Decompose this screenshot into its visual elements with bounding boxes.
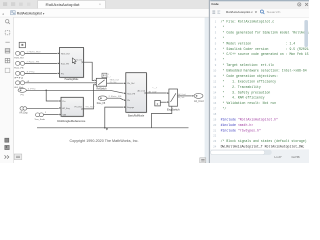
svg-text:* Embedded hardware selection:: * Embedded hardware selection: Intel->x8… [221,69,309,73]
canvas area [14,18,208,164]
horizontal scrollbar [210,150,272,155]
wire rar out [83,85,94,109]
svg-text:* 2. Traceability: * 2. Traceability [221,85,261,89]
svg-text:Rate_FB: Rate_FB [127,92,136,95]
svg-text:#include <math.h>: #include <math.h> [221,123,254,127]
svg-text:HDG_Ref: HDG_Ref [14,57,24,59]
wire mid oval to BasicRollMode p3 [107,98,124,100]
svg-text:◂: ◂ [2,12,4,16]
svg-text:Rate_FB: Rate_FB [61,63,70,66]
svg-text:* Simulink Coder version: * Simulink Coder version : 9.5 (R2021a) … [221,47,309,51]
wire rail to BasicRollMode Engage [105,107,124,128]
wire turn_knob to RollAngleReference p3 [44,114,59,116]
left palette column [0,17,14,163]
wire engswitch out [178,95,192,97]
wire ap_eng to RollAngleReference p2 [27,107,59,109]
mouse cursor [72,58,76,64]
svg-text:*: * [221,36,225,40]
svg-text:×: × [99,2,101,6]
svg-text:RollAxisAutopilot: RollAxisAutopilot [17,11,42,15]
svg-text:Code: Code [211,2,219,6]
palette tool icons [5,20,10,73]
svg-text:HeadingMode: HeadingMode [65,78,79,81]
inport Turn_Knob [36,113,40,117]
svg-text:RollAngleReference: RollAngleReference [57,119,85,123]
svg-text:*: * [221,58,225,62]
svg-text:‹HDG_Out›: ‹HDG_Out› [110,78,120,81]
svg-text:Ail_Cmd: Ail_Cmd [137,90,145,93]
search magnifier [260,10,263,13]
wire Phi to HeadingMode p3 [25,72,58,74]
top tab strip [0,0,210,9]
svg-text:EngSwitch: EngSwitch [167,107,180,111]
junction on rail with down arrow [104,127,106,129]
code vertical scrollbar thumb [304,20,308,47]
svg-text:Phi_Ref: Phi_Ref [127,83,135,85]
svg-text:‹Ail_Cmd›: ‹Ail_Cmd› [178,96,185,99]
svg-text:AP_Eng: AP_Eng [62,107,69,110]
svg-text:‹Ail_Cmd›: ‹Ail_Cmd› [178,93,186,96]
inport HDG_Ref [16,51,20,55]
inport Phi [16,71,20,75]
svg-text:Ail_Cmd: Ail_Cmd [194,99,204,103]
svg-text:‹...›: ‹...› [108,76,111,78]
inport AP_Eng [20,107,24,110]
svg-text:Phi: Phi [14,77,25,79]
svg-text:/* Block signals and states (d: /* Block signals and states (default sto… [221,139,309,143]
svg-text:‹TK_Ref›: ‹TK_Ref› [85,106,95,108]
code toolbar row [210,9,309,18]
svg-text:Rate_FB: Rate_FB [97,102,106,105]
inport row5 Phi [18,88,26,92]
page background [0,0,309,163]
panel divider [209,0,210,163]
inport Rate_FB [16,61,20,65]
svg-text:#include "rtwtypes.h": #include "rtwtypes.h" [221,128,261,132]
svg-text:* Target selection: ert.tlc: * Target selection: ert.tlc [221,63,275,67]
wire HDG_Mode to RefSwitch control [25,82,94,84]
svg-text:* 3. Safety precaution: * 3. Safety precaution [221,90,271,94]
svg-text:* 1. Execution efficiency: * 1. Execution efficiency [221,79,277,83]
palette bottom icons [5,138,10,158]
svg-text:‹Ail_Cmd›: ‹Ail_Cmd› [148,90,157,93]
svg-text:TAS: TAS [62,113,66,116]
svg-text:* Code generation objectives:: * Code generation objectives: [221,74,278,78]
small block above RefSwitch [102,73,107,78]
header gear icon [298,3,301,6]
svg-text:‹..›: ‹..› [152,87,158,89]
code panel header [210,0,309,9]
svg-text:DW_RollAxisAutopilot_T RollAxi: DW_RollAxisAutopilot_T RollAxisAutopilot… [221,145,305,149]
outport Ail_Cmd [194,93,203,98]
svg-text:HDG_Ref: HDG_Ref [61,54,70,56]
canvas bottom-right corner button [200,158,206,163]
svg-text:Turn_Knob: Turn_Knob [34,118,45,121]
wire Rate_FB to HeadingMode p2 [25,62,58,64]
canvas right scrollbar track [205,18,209,164]
code panel bottom status area [210,149,309,163]
wire bottom rail [37,127,189,129]
svg-text:#include "RollAxisAutopilot.h": #include "RollAxisAutopilot.h" [221,117,278,121]
svg-text:Phi: Phi [21,95,25,97]
svg-text:Engage: Engage [127,107,135,109]
wire brm out [146,92,166,94]
wire hm out [84,62,95,80]
subsystem HeadingMode [60,48,84,78]
canvas bottom-left corner button [14,154,22,160]
svg-text:* Model version: * Model version : 1.4 [221,41,296,45]
faint toolbar icons top-left [3,2,7,6]
svg-text:Phi_Ref: Phi_Ref [74,106,82,108]
svg-text:*: * [221,25,225,29]
svg-text:Ln 27: Ln 27 [275,155,282,159]
annotation badge block [19,42,25,47]
svg-text:AP_Eng: AP_Eng [19,111,28,114]
svg-text:*/: */ [221,107,227,111]
breadcrumb bar [0,9,210,18]
header close icon [305,3,308,6]
constant Zero [155,101,161,106]
code panel background [210,0,309,163]
wire HDG_Ref to HeadingMode p1 [25,52,58,54]
switch EngSwitch [169,89,178,106]
wire rail to EngSwitch control [151,107,171,128]
svg-text:Col 56: Col 56 [292,155,301,159]
svg-text:* Code generated for Simulink: * Code generated for Simulink model 'Rol… [221,30,309,34]
wire refswitch out [107,82,124,84]
inport HDG_Mode [16,81,20,85]
svg-text:Rate_FB: Rate_FB [14,66,24,69]
wire branch to RollAngleReference p1 [46,90,59,101]
svg-text:/* File: RollAxisAutopilot.c: /* File: RollAxisAutopilot.c [221,20,275,24]
svg-text:* 4. RAM efficiency: * 4. RAM efficiency [221,96,265,100]
svg-text:RollAxisAutopilot: RollAxisAutopilot [46,3,81,7]
wire constant to EngSwitch p2 [160,101,166,103]
svg-text:RollAxisAutopilot.c: RollAxisAutopilot.c [226,10,253,14]
svg-text:* Validation result: Not run: * Validation result: Not run [221,101,277,105]
svg-text:Search: Search [267,10,282,14]
active document tab RollAxisAutopilot [38,0,106,8]
svg-text:BasicRollMode: BasicRollMode [128,114,145,117]
breadcrumb model icon [11,11,16,15]
svg-text:2 Rate_FB: 2 Rate_FB [109,95,123,98]
svg-text:Copyright 1990-2020 The MathWo: Copyright 1990-2020 The MathWorks, Inc. [70,139,139,143]
svg-text:* C/C++ source code generated: * C/C++ source code generated on : Mon F… [221,52,309,56]
subsystem RollAngleReference [62,98,84,117]
subsystem BasicRollMode [127,74,148,114]
toolbar small icons [212,11,215,13]
inport mid Rate_FB [98,96,107,101]
code panel top edge [210,0,309,1]
wire row5 [26,90,123,93]
switch RefSwitch [96,78,106,86]
